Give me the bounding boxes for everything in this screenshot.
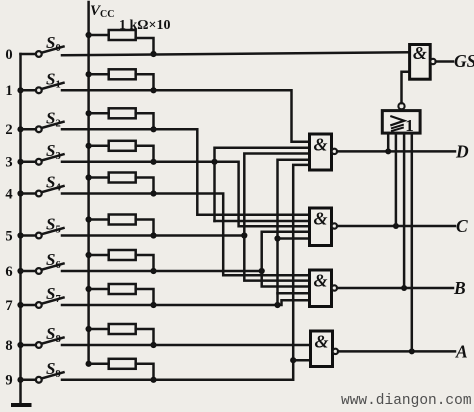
wire line6 branch down to B input 3 — [262, 271, 310, 287]
switch S6 contact circle — [36, 268, 42, 274]
resistor R9 (1k) pull-up for line 9 — [86, 361, 92, 367]
wire OR input from C — [395, 133, 398, 226]
svg-text:S3: S3 — [46, 141, 61, 162]
wire line3 branch down to C input 2 — [215, 220, 310, 223]
node A output junction — [409, 348, 415, 354]
op-amp U3 NAND gate B — [310, 270, 332, 307]
svg-text:&: & — [313, 135, 327, 155]
wire OR input from D — [387, 133, 390, 151]
switch S9 contact circle — [36, 377, 42, 383]
svg-text:S4: S4 — [46, 173, 61, 194]
svg-text:1: 1 — [5, 83, 12, 99]
wire bus to switch S1 — [21, 89, 37, 92]
switch S3 lever — [42, 154, 64, 160]
switch S7 lever — [42, 298, 64, 304]
wire line5 branch up to D input 3 — [244, 154, 309, 236]
svg-text:7: 7 — [5, 298, 12, 314]
junction on input bus at line 4 — [17, 190, 23, 196]
Vcc rail — [87, 2, 90, 364]
op-amp U5 OR gate >=1 — [382, 111, 420, 134]
wire bus to switch S9 — [21, 379, 37, 382]
wire line9 branch to A input 2 — [293, 359, 310, 362]
resistor R3 (1k) pull-up for line 3 — [86, 143, 92, 149]
resistor R7 (1k) pull-up for line 7 — [86, 286, 92, 292]
switch S0 contact circle — [36, 51, 42, 57]
wire line5 branch down to B input 2 — [244, 236, 309, 281]
switch S5 lever — [42, 228, 64, 234]
switch S7 contact circle — [36, 302, 42, 308]
svg-text:S9: S9 — [46, 359, 61, 380]
svg-text:S8: S8 — [46, 324, 61, 345]
svg-text:9: 9 — [5, 373, 12, 389]
wire line7 vertical up to D input 4 — [278, 160, 310, 305]
wire line4 to B input 1 — [62, 194, 310, 276]
op-amp U4 NAND gate A — [311, 331, 333, 367]
node line7 to C junction — [274, 235, 280, 241]
resistor R8 (1k) pull-up for line 8 — [86, 326, 92, 332]
switch S3 contact circle — [36, 159, 42, 165]
wire bus to switch S2 — [21, 128, 37, 131]
node C output junction — [393, 223, 399, 229]
wire OR input from A — [411, 133, 414, 351]
junction on input bus at line 5 — [17, 232, 23, 238]
wire line8 to A input 1 — [62, 344, 311, 347]
svg-text:0: 0 — [5, 47, 12, 63]
wire line3 branch up to D input 2 — [215, 148, 310, 221]
wire line7 branch to C input 5 — [278, 237, 310, 240]
wire bus to switch S0 — [21, 53, 37, 56]
wire line5 right segment — [62, 234, 244, 237]
wire OR output to GS gate — [402, 72, 410, 103]
svg-text:S1: S1 — [46, 69, 61, 90]
svg-text:B: B — [453, 278, 466, 298]
svg-text:C: C — [456, 216, 468, 236]
svg-text:4: 4 — [5, 186, 12, 202]
wire B output — [337, 287, 453, 290]
wire line7 right segment — [62, 300, 310, 305]
node B output junction — [401, 285, 407, 291]
wire line1 right segment — [62, 90, 310, 141]
svg-text:3: 3 — [5, 155, 12, 171]
junction on input bus at line 3 — [17, 159, 23, 165]
svg-text:8: 8 — [5, 338, 12, 354]
switch S4 lever — [42, 186, 64, 192]
op-amp U2 NAND gate C — [310, 208, 332, 246]
svg-text:6: 6 — [5, 264, 12, 280]
svg-text:www.diangon.com: www.diangon.com — [341, 393, 472, 409]
junction on input bus at line 9 — [17, 377, 23, 383]
wire bus to switch S6 — [21, 270, 37, 273]
node line9 to A junction — [290, 357, 296, 363]
svg-text:2: 2 — [5, 122, 12, 138]
svg-text:&: & — [313, 209, 327, 229]
svg-text:S5: S5 — [46, 215, 61, 236]
wire line2 to C input 1 — [62, 129, 310, 214]
wire line7 branch to B input 4 — [278, 292, 310, 295]
junction on input bus at line 7 — [17, 302, 23, 308]
switch S1 contact circle — [36, 87, 42, 93]
wire bus to switch S4 — [21, 192, 37, 195]
junction on input bus at line 2 — [17, 126, 23, 132]
wire OR input from B — [403, 133, 406, 288]
op-amp U6 NAND gate GS — [410, 45, 431, 80]
svg-text:A: A — [455, 342, 468, 362]
wire bus to switch S7 — [21, 304, 37, 307]
junction on input bus at line 8 — [17, 342, 23, 348]
node line6 branch junction — [259, 268, 265, 274]
junction on input bus at line 1 — [17, 87, 23, 93]
wire bus to switch S5 — [21, 234, 37, 237]
switch S8 lever — [42, 338, 64, 344]
resistor R1 (1k) pull-up for line 1 — [86, 71, 92, 77]
ground — [11, 403, 32, 407]
node line7 branch junction — [274, 302, 280, 308]
svg-text:S6: S6 — [46, 250, 61, 271]
svg-text:5: 5 — [5, 228, 12, 244]
wire bus to switch S8 — [21, 344, 37, 347]
switch S8 contact circle — [36, 342, 42, 348]
svg-text:S2: S2 — [46, 108, 61, 129]
resistor R5 (1k) pull-up for line 5 — [86, 216, 92, 222]
svg-text:&: & — [313, 271, 327, 291]
wire bus to switch S3 — [21, 161, 37, 164]
svg-text:GS: GS — [454, 51, 474, 71]
switch S1 lever — [42, 83, 64, 89]
wire A output — [338, 350, 455, 353]
svg-text:&: & — [413, 43, 427, 63]
svg-text:S7: S7 — [46, 284, 61, 305]
resistor R4 (1k) pull-up for line 4 — [86, 174, 92, 180]
resistor R6 (1k) pull-up for line 6 — [86, 252, 92, 258]
switch S9 lever — [42, 372, 64, 378]
wire line9 up to D input 5 — [62, 165, 310, 380]
svg-text:S0: S0 — [46, 33, 61, 54]
switch S4 contact circle — [36, 191, 42, 197]
switch S2 contact circle — [36, 126, 42, 132]
switch S0 lever — [42, 47, 64, 53]
wire GS output — [436, 60, 453, 63]
resistor R2 (1k) pull-up for line 2 — [86, 110, 92, 116]
svg-text:&: & — [314, 332, 328, 352]
wire line3 right segment to C input 3 — [62, 162, 310, 226]
junction on input bus at line 6 — [17, 268, 23, 274]
switch S6 lever — [42, 264, 64, 270]
wire C output — [337, 225, 455, 228]
node D output junction — [385, 148, 391, 154]
resistor R0 (1k) pull-up for line 0 — [86, 32, 92, 38]
wire line6 branch up to C input 4 — [262, 232, 310, 271]
op-amp U1 NAND gate D — [310, 134, 332, 170]
switch S2 lever — [42, 122, 64, 128]
wire D output — [337, 150, 455, 153]
input bus (left vertical rail) — [19, 54, 22, 405]
wire line0 to GS gate — [62, 52, 410, 55]
wire line6 right segment — [62, 270, 262, 273]
node line3 branch junction — [211, 159, 217, 165]
svg-text:VCC: VCC — [90, 3, 114, 20]
switch S5 contact circle — [36, 233, 42, 239]
node line5 branch junction — [241, 232, 247, 238]
svg-text:D: D — [455, 142, 469, 162]
